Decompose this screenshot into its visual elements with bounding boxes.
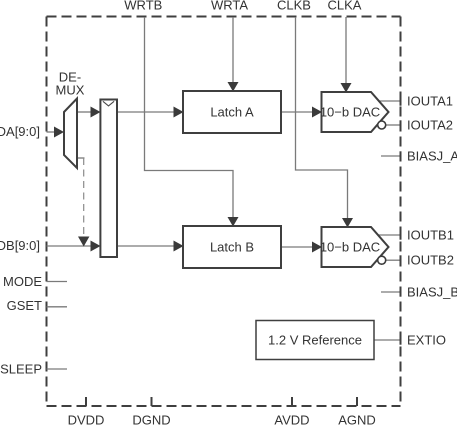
wire reference to EXTIO (374, 339, 400, 341)
svg-text:DVDD: DVDD (68, 413, 105, 427)
wire DB input to register (47, 241, 101, 252)
DE-MUX trapezoid (64, 99, 77, 169)
border tick BIASJ_B (400, 287, 402, 296)
svg-text:10−b DAC: 10−b DAC (320, 105, 380, 120)
svg-text:EXTIO: EXTIO (407, 333, 446, 348)
svg-text:Latch B: Latch B (210, 240, 254, 255)
svg-text:WRTB: WRTB (124, 0, 162, 13)
svg-text:10−b DAC: 10−b DAC (320, 240, 380, 255)
pin label DB[9:0] (0, 238, 40, 253)
pin label IOUTB1 (407, 228, 454, 243)
wire BIASJ_A stub (381, 155, 400, 157)
svg-text:IOUTB2: IOUTB2 (407, 253, 454, 268)
chip boundary dashed border (47, 17, 401, 407)
svg-text:IOUTA2: IOUTA2 (407, 117, 453, 132)
pin label SLEEP (0, 362, 42, 377)
pin label BIASJ_A (407, 149, 457, 164)
wire DAC B output IOUTB2 (386, 259, 400, 261)
pin label DVDD (68, 413, 105, 427)
svg-text:DB[9:0]: DB[9:0] (0, 238, 40, 253)
svg-text:BIASJ_B: BIASJ_B (407, 285, 457, 300)
wire CLKB to DAC B (296, 17, 354, 228)
block Latch B (183, 226, 281, 268)
svg-text:CLKB: CLKB (277, 0, 311, 13)
svg-text:MUX: MUX (56, 83, 85, 98)
svg-text:AGND: AGND (338, 413, 376, 427)
wire DAC A output IOUTA2 (386, 124, 400, 126)
svg-text:WRTA: WRTA (211, 0, 248, 13)
svg-text:IOUTB1: IOUTB1 (407, 228, 454, 243)
wire DE-MUX lower output stub (77, 157, 85, 159)
block 10-b DAC A (320, 92, 389, 132)
input register (100, 100, 117, 258)
pin label CLKA (328, 0, 362, 13)
pin label DA[9:0] (0, 124, 40, 139)
border tick IOUTA2 (400, 120, 402, 129)
register clock chevron (103, 101, 114, 106)
wire Latch B to DAC B (281, 242, 322, 253)
wire BIASJ_B stub (381, 291, 400, 293)
svg-text:AVDD: AVDD (274, 413, 309, 427)
border tick DVDD (85, 397, 87, 406)
border tick IOUTA1 (400, 96, 402, 105)
wire CLKA to DAC A (341, 17, 352, 93)
DE-MUX label (56, 70, 85, 98)
wire WRTA to Latch A (228, 17, 239, 92)
wire MODE stub (47, 281, 68, 283)
pin label IOUTB2 (407, 253, 454, 268)
pin label GSET (7, 298, 42, 313)
block Latch A (183, 91, 281, 133)
svg-text:IOUTA1: IOUTA1 (407, 94, 453, 109)
pin label EXTIO (407, 333, 446, 348)
pin label BIASJ_B (407, 285, 457, 300)
pin label WRTB (124, 0, 162, 13)
svg-text:BIASJ_A: BIASJ_A (407, 149, 457, 164)
svg-text:Latch A: Latch A (210, 105, 254, 120)
wire register to Latch A (117, 107, 184, 118)
block 10-b DAC B (320, 227, 389, 267)
pin label IOUTA1 (407, 94, 453, 109)
border tick AGND (356, 397, 358, 406)
wire register to Latch B (117, 241, 184, 252)
border tick EXTIO (400, 335, 402, 344)
wire WRTB to Latch B (145, 17, 239, 227)
pin label DGND (132, 413, 170, 427)
pin label AVDD (274, 413, 309, 427)
border tick DGND (151, 397, 153, 406)
pin label WRTA (211, 0, 248, 13)
inverter bubble on IOUTB2 (378, 256, 386, 264)
border tick IOUTB2 (400, 255, 402, 264)
border tick IOUTB1 (400, 230, 402, 239)
svg-text:CLKA: CLKA (328, 0, 362, 13)
pin label CLKB (277, 0, 311, 13)
svg-text:DA[9:0]: DA[9:0] (0, 124, 40, 139)
wire GSET stub (47, 306, 68, 308)
wire DAC A output IOUTA1 (379, 100, 400, 102)
svg-text:MODE: MODE (3, 274, 42, 289)
svg-text:SLEEP: SLEEP (0, 362, 42, 377)
border tick AVDD (291, 397, 293, 406)
pin label AGND (338, 413, 376, 427)
inverter bubble on IOUTA2 (378, 121, 386, 129)
pin label MODE (3, 274, 42, 289)
wire DAC B output IOUTB1 (378, 234, 400, 236)
svg-text:1.2 V Reference: 1.2 V Reference (268, 333, 362, 348)
svg-text:GSET: GSET (7, 298, 42, 313)
dashed wire DE-MUX lower output down to DB bus (78, 158, 89, 247)
svg-text:DGND: DGND (132, 413, 170, 427)
wire SLEEP stub (47, 368, 68, 370)
block 1.2 V Reference (256, 321, 374, 360)
pin label IOUTA2 (407, 117, 453, 132)
wire DA input to DE-MUX (47, 127, 65, 138)
wire Latch A to DAC A (281, 107, 322, 118)
wire DE-MUX upper output to register (77, 107, 101, 118)
border tick BIASJ_A (400, 151, 402, 160)
